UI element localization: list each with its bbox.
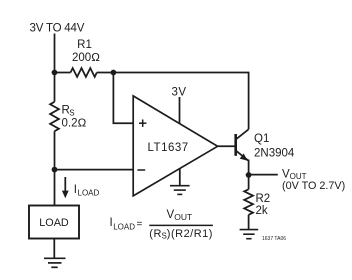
- label ILOAD: [74, 184, 100, 198]
- svg-text:R1: R1: [77, 39, 92, 51]
- label VOUT: [282, 168, 307, 181]
- transistor Q1 2N3904: [236, 129, 249, 161]
- svg-text:200Ω: 200Ω: [72, 52, 100, 64]
- wire RS bottom lead: [54, 131, 56, 169]
- wire R2 bottom lead: [248, 215, 250, 230]
- wire R2 top lead: [248, 175, 250, 189]
- wire op-amp output to base: [218, 145, 235, 147]
- current arrow ILOAD: [62, 177, 69, 198]
- svg-text:Q1: Q1: [254, 133, 269, 145]
- svg-text:LT1637: LT1637: [148, 142, 189, 154]
- resistor R2: [244, 189, 253, 215]
- wire 3V to op-amp top: [179, 97, 181, 124]
- wire node to load: [54, 170, 56, 206]
- wire VOUT stub: [249, 174, 278, 176]
- svg-text:LOAD: LOAD: [113, 222, 135, 231]
- svg-text:(0V TO 2.7V): (0V TO 2.7V): [282, 180, 345, 192]
- formula fraction bar: [149, 224, 213, 226]
- node junction dot load: [52, 167, 58, 173]
- ground R2: [240, 230, 259, 239]
- minus input sign: [137, 169, 145, 171]
- svg-text:2k: 2k: [256, 205, 268, 217]
- svg-text:)(R2/R1): )(R2/R1): [167, 228, 213, 240]
- ground load: [44, 258, 66, 267]
- plus input sign: [139, 120, 146, 127]
- svg-text:0.2Ω: 0.2Ω: [62, 117, 87, 129]
- label RS: [62, 104, 75, 117]
- resistor RS: [50, 102, 59, 131]
- ground op-amp: [170, 186, 190, 195]
- resistor R1: [71, 68, 97, 77]
- svg-text:LOAD: LOAD: [39, 217, 69, 229]
- svg-text:1637 TA06: 1637 TA06: [262, 236, 286, 242]
- load box: [29, 206, 79, 239]
- wire RS top lead: [54, 73, 56, 102]
- svg-text:2N3904: 2N3904: [254, 147, 295, 159]
- svg-text:=: =: [137, 219, 143, 230]
- formula ILOAD equation: [110, 209, 213, 241]
- wire minus input: [55, 169, 134, 171]
- wire op-amp ground stem: [179, 168, 181, 186]
- op-amp U1 LT1637: [133, 96, 217, 196]
- wire rail to transistor collector drop: [97, 73, 249, 130]
- svg-text:3V: 3V: [172, 87, 187, 99]
- svg-text:R2: R2: [256, 193, 271, 205]
- svg-text:3V TO 44V: 3V TO 44V: [30, 23, 85, 35]
- svg-text:S: S: [69, 108, 74, 117]
- wire top rail: [55, 72, 71, 74]
- wire supply lead: [54, 34, 56, 73]
- node junction dot right rail: [111, 70, 117, 76]
- svg-text:V: V: [167, 209, 175, 221]
- svg-text:OUT: OUT: [174, 212, 192, 222]
- wire plus input from rail: [113, 73, 133, 124]
- node junction dot left rail: [52, 70, 58, 76]
- node junction dot VOUT: [246, 172, 252, 178]
- wire load to ground: [53, 239, 55, 259]
- wire emitter to output node: [248, 160, 250, 176]
- svg-text:(R: (R: [149, 228, 162, 240]
- svg-text:LOAD: LOAD: [78, 188, 100, 197]
